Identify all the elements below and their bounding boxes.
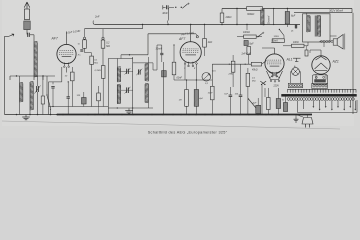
label fuse: [282, 100, 284, 102]
svg-text:60nF: 60nF: [177, 77, 183, 80]
cath resistor R7: [172, 62, 176, 75]
wire L4 top: [116, 59, 118, 68]
AVC cap C9: [82, 92, 87, 107]
label 50nF b: [235, 93, 239, 95]
IFT1 trim cap C6: [127, 87, 129, 93]
label C15 8uF: [250, 44, 255, 46]
wave switch cap C4: [163, 5, 168, 9]
res R21 100ohm: [272, 39, 284, 43]
bottom return wire: [298, 100, 358, 113]
voice coil link: [295, 24, 297, 29]
wire L5 bottom: [147, 103, 149, 108]
svg-text:8µF: 8µF: [291, 15, 296, 18]
wire V2 drop: [185, 64, 197, 80]
wire OT top: [294, 13, 352, 19]
wire switch feed: [46, 76, 48, 95]
svg-text:50nF: 50nF: [208, 93, 213, 95]
wire R col: [85, 48, 92, 56]
HT top line: [222, 8, 352, 10]
smoothing choke CH1: [261, 9, 264, 26]
svg-text:AF7: AF7: [178, 37, 185, 41]
svg-text:100kΩ: 100kΩ: [243, 32, 250, 34]
IFT1 ground: [125, 109, 133, 114]
bypass cap C3: [80, 50, 83, 51]
label 40nF: [162, 12, 168, 15]
wire header left drop: [9, 76, 11, 80]
label R1: [78, 44, 81, 57]
scan bottom edge: [2, 121, 340, 129]
wire spk: [324, 36, 337, 47]
label 8uF: [291, 15, 296, 18]
sec taps pins: [313, 101, 357, 111]
wire C2 bottom: [37, 92, 39, 115]
svg-text:40kΩ: 40kΩ: [252, 68, 258, 71]
svg-text:AF7: AF7: [51, 36, 58, 40]
svg-text:40nF: 40nF: [162, 12, 168, 15]
label 50nF a: [224, 93, 228, 95]
wire x163: [162, 62, 164, 115]
label R9: [205, 83, 209, 85]
AVC resistor R5: [71, 67, 75, 107]
screen res R18 100: [292, 44, 305, 47]
label R22: [95, 70, 102, 72]
wire rail drop x237: [236, 8, 237, 25]
junction anode link: [129, 54, 130, 55]
coil L2: [20, 82, 23, 102]
svg-text:Schaltbild des AEG „Europameis: Schaltbild des AEG „Europameister 325“: [148, 130, 228, 134]
wire x212: [211, 64, 213, 86]
label R4: [106, 43, 110, 48]
electrolytic C14: [285, 12, 289, 25]
tone switch S3: [279, 29, 284, 39]
antenna trimmer cap C1: [28, 33, 30, 37]
svg-text:220V: 220V: [273, 86, 280, 88]
antenna arrow: [24, 2, 30, 9]
anode link top: [148, 34, 198, 38]
wire V2 anode top: [190, 24, 191, 42]
label 2nF+2nF: [241, 53, 252, 55]
label R8 2k: [207, 41, 213, 44]
trim arrow C5: [125, 68, 131, 75]
detector line y64: [212, 64, 251, 65]
svg-text:30mA: 30mA: [156, 48, 163, 51]
IFT1 bottom wire: [108, 107, 153, 109]
wire C2 top: [38, 76, 44, 86]
det res R13: [231, 55, 235, 87]
OT core: [315, 16, 317, 37]
4uF block C11: [162, 71, 167, 77]
top right feed: [351, 9, 353, 13]
paper background: [0, 0, 360, 138]
junction header b: [42, 75, 43, 76]
AVC line: [49, 106, 109, 108]
label pot: [213, 71, 217, 73]
junction rail a: [167, 24, 264, 25]
cathode resistor R1: [83, 40, 87, 49]
wire R22 bottom: [102, 78, 104, 106]
label 240V: [273, 86, 280, 88]
sec drop left a: [297, 101, 299, 113]
svg-text:50mA: 50mA: [272, 40, 279, 43]
trim arrow C6: [125, 87, 131, 94]
field resistor R19: [267, 88, 271, 115]
svg-text:1M: 1M: [179, 100, 182, 102]
wire S2 down: [168, 8, 169, 25]
svg-text:4µF: 4µF: [253, 102, 257, 105]
AZ1 cath res: [305, 46, 308, 56]
AF res R10: [185, 90, 189, 107]
label 60nF: [177, 77, 183, 80]
wire R2 bottom: [91, 64, 93, 106]
cathode cap C10: [160, 53, 163, 54]
AL1 top cap wire: [262, 48, 275, 54]
svg-text:100Ω: 100Ω: [293, 42, 299, 44]
sec drop left b: [303, 101, 305, 109]
label 1MOhm: [179, 100, 182, 102]
AZ1 socket: [313, 75, 328, 85]
plug prongs: [306, 124, 310, 128]
junction IFT1: [117, 107, 134, 108]
wire V2 anode right: [190, 24, 192, 26]
label R5: [65, 75, 68, 77]
det res R12 box: [251, 62, 261, 66]
label 30mA: [156, 48, 163, 51]
secondary loops: [287, 98, 354, 101]
wire to AL1 grid: [262, 61, 267, 65]
chassis bus thin left: [5, 114, 58, 116]
wire R4 bottom: [102, 48, 104, 65]
tube V4 AZ1: [312, 56, 330, 74]
tube V2 AF7: [180, 42, 201, 67]
label 0,2uF 0,1MOhm: [66, 30, 81, 35]
ground L2: [20, 102, 30, 120]
wire R9 bot: [211, 100, 213, 115]
wire R18: [283, 42, 308, 46]
cap C15: [244, 41, 248, 46]
label AZ1: [332, 60, 339, 64]
svg-text:2kΩ: 2kΩ: [207, 41, 213, 44]
svg-text:MΩ: MΩ: [106, 46, 110, 48]
heater winding box b: [312, 83, 328, 88]
lamp wires: [291, 72, 301, 84]
volume pot P1: [202, 73, 211, 82]
det caps C13: [239, 64, 243, 114]
trim arrow C7: [136, 69, 142, 76]
label AF7 (RF tube V1): [51, 36, 58, 40]
fuse Si: [276, 88, 280, 115]
label 302V 60mA: [329, 9, 343, 13]
series resistor R15: [247, 7, 263, 11]
AVC resistor R6: [97, 86, 101, 115]
wire antenna down: [26, 30, 28, 35]
grid resistor R9: [211, 86, 215, 100]
det caps C12: [229, 87, 233, 115]
label 20kOhm: [225, 16, 232, 19]
screen res R8: [203, 39, 207, 48]
dropper resistor R14: [220, 13, 224, 23]
wire V1 heater: [48, 82, 50, 115]
plug feed wire: [296, 115, 308, 118]
svg-text:Drossel: Drossel: [267, 15, 270, 24]
label R21: [274, 36, 280, 38]
label 300kOhm: [247, 13, 254, 16]
label 2k: [290, 31, 294, 33]
wire ground bus left: [5, 36, 9, 114]
fuse 2: [283, 96, 287, 111]
schematic scan area: [2, 0, 354, 126]
label AF7 (IF tube V2): [178, 37, 185, 41]
OT primary L6: [307, 15, 310, 32]
caption text: [148, 130, 228, 134]
bus junction dots: [16, 114, 279, 116]
tuning coil L1: [34, 41, 37, 77]
AZ1 anode wires: [310, 50, 321, 56]
switch contacts S2: [169, 3, 189, 8]
junction header a: [16, 75, 17, 76]
label lamp A: [293, 65, 296, 68]
AL1 envelope cone: [267, 71, 283, 80]
PU switch lever: [248, 98, 256, 108]
rail link wire: [273, 8, 274, 25]
AVC cap C8b: [67, 81, 70, 114]
switch S5: [257, 32, 264, 37]
svg-text:8µF: 8µF: [250, 44, 255, 46]
wire C5 links: [121, 71, 133, 90]
svg-text:2MΩ: 2MΩ: [228, 74, 234, 76]
antenna coupling box: [24, 9, 29, 20]
speaker icon: [333, 34, 345, 50]
res R16 horiz: [244, 35, 257, 38]
IFT1 coil L5a: [145, 63, 148, 81]
wire V2 grid: [153, 69, 157, 71]
label R18: [293, 42, 299, 44]
coil L3: [30, 81, 33, 110]
chassis bus: [57, 114, 312, 116]
tube V1 AF7: [57, 44, 76, 67]
label R16: [243, 32, 250, 34]
IFT1 mid wire: [132, 57, 134, 115]
svg-text:MΩ: MΩ: [94, 62, 98, 64]
trimmer arrow C2: [35, 86, 41, 94]
screen resistor R4: [101, 40, 105, 48]
label R13: [228, 74, 234, 76]
wire V1 cathode drop: [49, 67, 67, 84]
svg-text:2nF: 2nF: [94, 15, 100, 19]
wire R7: [173, 44, 174, 80]
svg-text:AL1: AL1: [286, 58, 293, 62]
res R17 vert: [247, 47, 251, 55]
primary comb: [288, 89, 357, 92]
wire R10: [186, 80, 188, 115]
HT right drop: [352, 13, 354, 114]
screen resistor R2: [90, 56, 94, 64]
det res R20: [246, 68, 250, 115]
field coil loops: [319, 40, 333, 42]
mid resistor R22: [101, 66, 105, 79]
AL1 pins: [270, 80, 280, 82]
svg-text:0,1MΩ: 0,1MΩ: [95, 70, 102, 72]
label 4uF: [253, 102, 257, 105]
coupling line: [174, 79, 212, 80]
svg-text:2nF+2nF: 2nF+2nF: [241, 53, 252, 55]
svg-text:100Ω: 100Ω: [274, 36, 280, 38]
mains plug body: [302, 118, 313, 125]
IFT1 coil L4b: [117, 84, 120, 104]
label Drossel: [267, 15, 270, 24]
HT rail mid: [95, 24, 300, 26]
wire L2 top: [19, 76, 21, 83]
rail hook: [93, 21, 95, 25]
grid cap terminal b: [102, 29, 104, 40]
padder box: [41, 76, 44, 115]
dial lamp LP: [292, 68, 300, 76]
antenna series block: [24, 21, 30, 30]
wire L5 top: [148, 57, 153, 70]
wire C14: [287, 8, 288, 27]
wire R14: [221, 9, 223, 25]
cap 4uF block: [256, 98, 261, 114]
IFT1 trim cap C5: [127, 69, 129, 74]
wire L1 bottom: [33, 77, 35, 80]
IFT1 trim cap C7: [138, 69, 140, 74]
IFT1 coil L5b: [145, 83, 148, 103]
svg-text:MΩ: MΩ: [252, 80, 256, 82]
label 2nF: [94, 15, 100, 19]
wire coil header: [10, 75, 55, 77]
IFT1 left wire: [107, 59, 109, 115]
plug earth symbol: [294, 115, 299, 123]
mains switch S4: [260, 81, 266, 85]
band switch S1: [46, 94, 51, 114]
wire mains a: [262, 85, 265, 115]
speaker box: [303, 14, 331, 42]
OT secondary L7: [317, 15, 320, 36]
IFT1 coil L4a: [117, 67, 120, 82]
grid-line top: [85, 24, 144, 29]
label R20: [252, 78, 256, 83]
AVC cap C8: [51, 87, 54, 108]
label R2: [94, 60, 98, 65]
antenna selector arrow: [8, 34, 14, 37]
IFT1 top wire: [108, 59, 153, 63]
transformer core bar: [282, 94, 357, 96]
anode link wire: [121, 34, 148, 59]
AZ1 filament drop: [316, 74, 326, 80]
wire R8: [204, 24, 205, 56]
heater winding box a: [288, 83, 302, 87]
label 4uF r11: [199, 97, 203, 100]
wire chain: [237, 25, 262, 65]
hanger symbol: [293, 58, 301, 61]
svg-text:302V 60mA: 302V 60mA: [329, 9, 343, 13]
label R9b: [208, 93, 213, 95]
padder cap C2: [37, 86, 39, 92]
wire R11: [195, 80, 197, 115]
grid cap terminal a: [83, 29, 85, 40]
svg-text:AZ1: AZ1: [332, 60, 339, 64]
wire ant node to coil: [30, 35, 34, 42]
label AL1: [286, 58, 293, 62]
tube V3 AL1: [265, 54, 284, 77]
svg-text:300kΩ: 300kΩ: [247, 13, 254, 16]
wire L3 bottom: [29, 110, 31, 115]
label R12: [252, 68, 258, 71]
label 100pF: [77, 95, 81, 97]
wire V1 grid top: [66, 32, 68, 45]
svg-text:20kΩ: 20kΩ: [225, 16, 232, 19]
label 50mA: [271, 40, 280, 43]
AF res R11 hatched: [194, 90, 198, 107]
V2 pins: [184, 63, 197, 70]
label 0,2uF b: [181, 31, 195, 36]
wire V2 left: [157, 45, 162, 70]
